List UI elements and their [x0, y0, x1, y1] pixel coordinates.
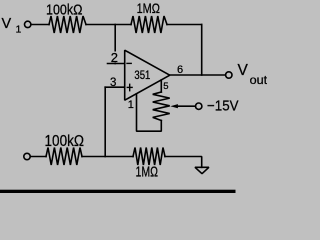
resistor R2 1M feedback (top): [131, 16, 167, 33]
resistor R4 1M (bottom): [133, 148, 165, 166]
wire lead into pin 2: [108, 63, 125, 65]
svg-text:351: 351: [134, 70, 150, 82]
wire R4 to ground: [165, 157, 202, 168]
svg-text:V: V: [2, 16, 12, 32]
wire R1 to R2, inverting node: [86, 24, 131, 26]
node Vout terminal: [226, 72, 232, 78]
svg-text:1MΩ: 1MΩ: [136, 164, 159, 181]
resistor R1 100k (top): [49, 16, 86, 33]
minus sign pin 2: [126, 62, 132, 64]
svg-text:100kΩ: 100kΩ: [46, 2, 83, 19]
svg-text:5: 5: [163, 81, 168, 92]
svg-text:V: V: [238, 62, 249, 79]
svg-text:out: out: [250, 73, 267, 87]
node V2 input terminal (bottom): [24, 153, 30, 159]
wire op-amp output to terminal: [170, 74, 226, 76]
node -15V terminal: [196, 103, 202, 109]
wire R2 to feedback corner: [167, 24, 202, 26]
bottom black bar: [0, 190, 236, 193]
svg-text:−15V: −15V: [207, 99, 239, 115]
wire pot bottom to pin 1: [137, 94, 162, 131]
ground: [195, 167, 209, 173]
plus sign pin 3: [127, 86, 133, 88]
wire R3 to R4 bottom rail: [82, 156, 133, 158]
wire inverting node down to pin 2: [114, 25, 116, 64]
svg-text:6: 6: [177, 64, 183, 76]
wire pin 3 node down to bottom rail: [104, 87, 106, 156]
label pin 2 (with background erasing wire): [110, 52, 119, 63]
wire pin 5 stub: [160, 80, 162, 92]
svg-text:3: 3: [110, 77, 116, 89]
node V1 input terminal: [25, 21, 31, 27]
resistor R3 100k (bottom): [46, 148, 82, 166]
wire input terminal to R1: [31, 24, 49, 26]
svg-text:1: 1: [128, 99, 134, 111]
svg-text:1: 1: [16, 24, 22, 36]
arrowhead of pot wiper: [170, 104, 178, 108]
op-amp U1 triangle: [125, 50, 170, 100]
wire bottom terminal to R3: [30, 156, 46, 158]
wire pot wiper to -15V terminal: [178, 105, 196, 107]
potentiometer offset null: [153, 92, 170, 121]
svg-text:1MΩ: 1MΩ: [137, 0, 160, 16]
svg-text:2: 2: [111, 50, 118, 65]
wire lead into pin 3: [105, 86, 125, 88]
wire feedback vertical to output: [201, 25, 203, 76]
svg-text:100kΩ: 100kΩ: [45, 133, 85, 150]
